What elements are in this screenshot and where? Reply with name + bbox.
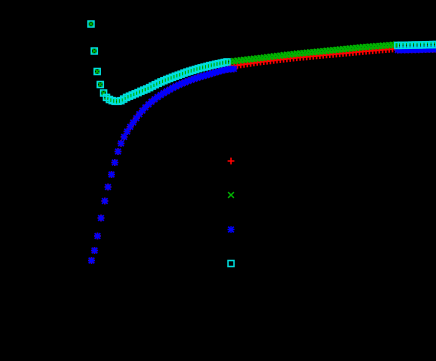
legend marker: cyan square — [228, 261, 234, 267]
legend marker: blue star — [228, 226, 235, 233]
blue star series: right segment — [394, 46, 436, 54]
red plus series: visible band, middle segment — [227, 45, 399, 69]
legend marker: green X — [228, 192, 234, 198]
cyan square series: left curve with dip — [88, 21, 230, 104]
green X series: visible band, middle segment — [228, 42, 399, 65]
legend marker: red plus — [228, 158, 235, 165]
green X series: inside cyan squares, right segment — [395, 42, 436, 49]
blue star series: left rising curve — [88, 65, 237, 264]
green X series: inside cyan squares, left segment — [88, 21, 230, 104]
red plus series: hidden under blue stars, right segment — [394, 46, 436, 54]
cyan square series: right segment — [395, 42, 436, 49]
red plus series: hidden under blue stars, left segment — [88, 66, 237, 264]
